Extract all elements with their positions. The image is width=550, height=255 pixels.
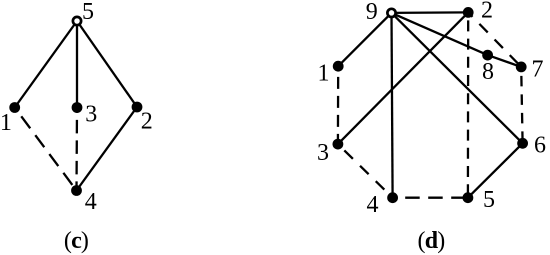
wire 2-7 dashed [468, 12, 521, 67]
wire 9-2 solid [392, 11, 469, 14]
svg-text:6: 6 [534, 133, 546, 159]
svg-text:(d): (d) [418, 228, 445, 254]
svg-text:8: 8 [482, 59, 494, 85]
wire 9-4 solid [392, 13, 393, 198]
wire 5-1 solid [15, 21, 77, 108]
wire 8-7 solid [488, 55, 522, 67]
svg-text:4: 4 [367, 192, 379, 218]
node 9 (open) [387, 9, 395, 17]
node 1d [333, 61, 344, 72]
node 5d [463, 192, 474, 203]
wire 7-6 dashed [521, 67, 522, 143]
wire 2-3 solid [338, 12, 468, 144]
wire 2-4 solid [77, 107, 138, 191]
svg-text:5: 5 [82, 0, 94, 25]
wire 4-5 dashed [393, 197, 468, 199]
wire 5-3 solid [76, 21, 78, 108]
wire 9-6 solid [392, 13, 523, 143]
wire 3-4 dashed [338, 144, 393, 198]
wire 1-4 dashed [15, 108, 77, 191]
svg-text:7: 7 [532, 57, 544, 83]
svg-text:9: 9 [366, 0, 378, 25]
wire 9-8 solid [392, 13, 488, 55]
node 8d [482, 50, 493, 61]
svg-text:2: 2 [141, 109, 153, 135]
node 1 [9, 102, 20, 113]
node 2 [132, 102, 143, 113]
node 2d [463, 7, 474, 18]
svg-text:3: 3 [85, 102, 97, 128]
svg-text:(c): (c) [64, 228, 88, 254]
svg-text:4: 4 [85, 189, 97, 215]
node 3 [72, 102, 83, 113]
node 4d [387, 192, 398, 203]
wire 5-6 solid [468, 143, 523, 197]
svg-text:2: 2 [481, 0, 493, 24]
svg-text:1: 1 [318, 61, 330, 87]
svg-text:3: 3 [317, 140, 329, 166]
wire 5-2 solid [77, 21, 137, 107]
wire 3-4 dashed [75, 108, 78, 191]
node 6d [517, 138, 528, 149]
wire 9-1 solid [338, 13, 391, 66]
node 4 [71, 185, 82, 196]
svg-text:1: 1 [0, 110, 12, 136]
wire 2-5 dashed [467, 12, 470, 197]
node 7d [516, 62, 527, 73]
node 3d [333, 139, 344, 150]
svg-text:5: 5 [483, 187, 495, 213]
node 5 (open) [73, 17, 81, 25]
wire 1-3 dashed [337, 66, 340, 144]
